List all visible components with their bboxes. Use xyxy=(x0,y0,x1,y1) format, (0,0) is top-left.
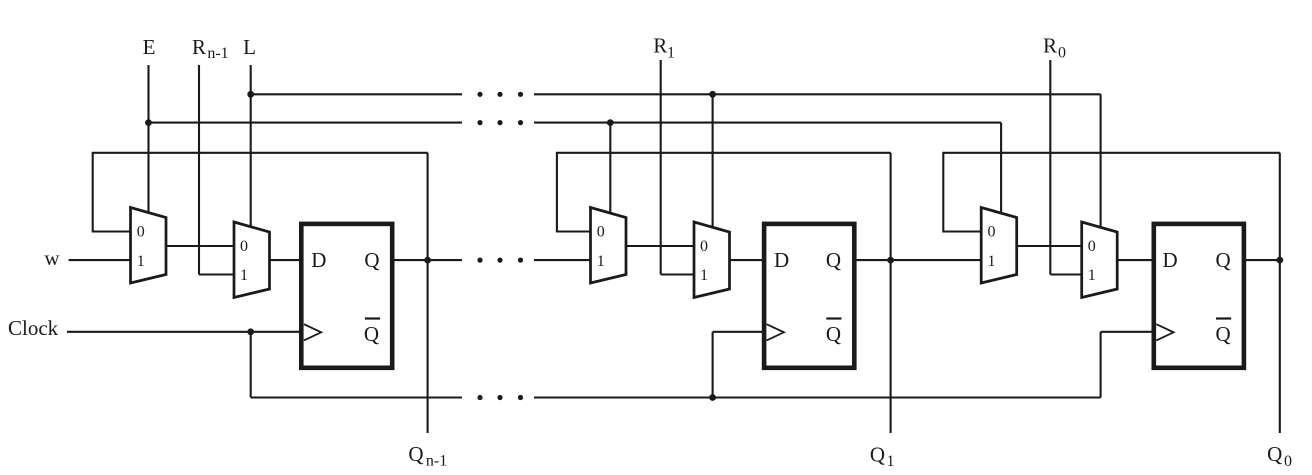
junction E bus stage1 xyxy=(145,119,152,126)
wire Rn-1 input rail xyxy=(198,65,200,275)
wire w input xyxy=(69,259,132,261)
svg-text:0: 0 xyxy=(240,238,248,255)
svg-text:L: L xyxy=(243,35,256,59)
flip-flop FF1 xyxy=(301,224,392,368)
wire feedback loop stage1 xyxy=(93,153,428,232)
wire feedback loop stage3 xyxy=(943,153,1280,232)
svg-text:E: E xyxy=(143,35,156,59)
junction node Qn-1 xyxy=(424,257,431,264)
wire Rn-1 jog to U2 input 1 xyxy=(199,273,236,275)
junction L bus stage1 xyxy=(247,91,254,98)
junction E bus stage2 xyxy=(607,119,614,126)
junction node Q0 xyxy=(1276,257,1283,264)
wire mux U1 output to U2 xyxy=(166,245,236,247)
svg-text:Q: Q xyxy=(1216,322,1231,346)
wire clock drop stage2 xyxy=(712,332,714,398)
wire R0 jog to U6 input 1 xyxy=(1050,273,1083,275)
svg-text:Q: Q xyxy=(826,322,841,346)
svg-text:Clock: Clock xyxy=(8,316,59,340)
mux U5 xyxy=(981,208,1017,284)
svg-text:D: D xyxy=(1163,248,1178,272)
flip-flop FF1 Q-bar overline xyxy=(365,317,380,319)
wire clock bus left segment xyxy=(251,396,462,398)
wire L select drop stage3 xyxy=(1100,94,1102,228)
svg-text:D: D xyxy=(774,248,789,272)
svg-text:R: R xyxy=(1043,34,1057,58)
wire Q0 output rail xyxy=(1279,153,1281,433)
svg-text:1: 1 xyxy=(1088,267,1096,284)
wire mux U5 output to U6 xyxy=(1016,245,1083,247)
svg-text:1: 1 xyxy=(597,253,605,270)
wire mux U4 output to FF2 D xyxy=(729,259,764,261)
continuation dots E bus xyxy=(477,120,482,125)
svg-text:0: 0 xyxy=(1088,238,1096,255)
svg-text:Q: Q xyxy=(364,248,379,272)
wire R1 input rail xyxy=(660,60,662,275)
svg-text:1: 1 xyxy=(700,267,708,284)
svg-text:n-1: n-1 xyxy=(207,45,228,62)
wire mux U3 output to U4 xyxy=(626,245,696,247)
wire clock bus right segment xyxy=(534,396,1101,398)
wire feedback loop stage2 xyxy=(557,153,891,232)
wire clock drop stage1 xyxy=(250,332,252,398)
wire Q1 output rail xyxy=(890,153,892,433)
flip-flop FF2 xyxy=(764,224,854,368)
svg-text:Q: Q xyxy=(1216,248,1231,272)
junction clock stage1 xyxy=(247,328,254,335)
wire Clock input xyxy=(67,331,305,333)
mux U2 xyxy=(234,222,270,298)
svg-text:0: 0 xyxy=(1058,45,1066,62)
svg-text:D: D xyxy=(311,248,326,272)
wire FF1 Q output xyxy=(394,259,462,261)
svg-text:0: 0 xyxy=(1284,453,1292,470)
svg-text:Q: Q xyxy=(870,443,885,467)
svg-text:R: R xyxy=(192,35,206,59)
svg-text:0: 0 xyxy=(988,223,996,240)
wire E select drop stage2 xyxy=(609,123,611,214)
wire E select drop stage3 xyxy=(1000,123,1002,214)
junction clock bus stage2 xyxy=(709,394,716,401)
svg-text:1: 1 xyxy=(667,44,675,61)
wire clock drop stage3 xyxy=(1100,332,1102,398)
mux U6 xyxy=(1082,222,1118,298)
wire FF3 Q output xyxy=(1246,259,1280,261)
flip-flop FF3 Q-bar overline xyxy=(1216,317,1231,319)
flip-flop FF3 xyxy=(1154,224,1244,368)
wire L input rail stage1 xyxy=(250,65,252,228)
svg-text:Q: Q xyxy=(408,442,423,466)
wire R1 jog to U4 input 1 xyxy=(661,273,696,275)
svg-text:0: 0 xyxy=(700,238,708,255)
wire Qn-1 output rail xyxy=(427,153,429,433)
wire L bus left segment xyxy=(251,93,462,95)
wire E input rail stage1 xyxy=(147,65,149,214)
svg-text:0: 0 xyxy=(597,223,605,240)
clock triangle FF2 xyxy=(767,324,784,340)
wire E bus left segment xyxy=(149,122,463,124)
mux U4 xyxy=(694,222,730,298)
clock triangle FF3 xyxy=(1156,324,1173,340)
wire L bus right segment xyxy=(534,93,1101,95)
wire clock stub stage2 xyxy=(713,331,767,333)
svg-text:1: 1 xyxy=(137,253,145,270)
continuation dots main row xyxy=(477,258,482,263)
clock triangle FF1 xyxy=(304,324,321,340)
junction L bus stage2 xyxy=(709,91,716,98)
svg-text:Q: Q xyxy=(364,322,379,346)
mux U1 xyxy=(131,208,167,284)
wire main row into mux U3 xyxy=(534,259,592,261)
continuation dots L bus xyxy=(477,92,482,97)
wire FF2 Q output to mux U5 xyxy=(856,259,983,261)
svg-text:n-1: n-1 xyxy=(426,453,447,470)
flip-flop FF2 Q-bar overline xyxy=(826,317,841,319)
svg-text:1: 1 xyxy=(240,267,248,284)
svg-text:0: 0 xyxy=(137,223,145,240)
wire R0 input rail xyxy=(1049,60,1051,275)
wire clock stub stage3 xyxy=(1101,331,1156,333)
svg-text:R: R xyxy=(653,34,667,58)
continuation dots clock bus xyxy=(477,395,482,400)
svg-text:1: 1 xyxy=(988,253,996,270)
wire E bus right segment xyxy=(534,122,1001,124)
mux U3 xyxy=(591,208,627,284)
svg-text:w: w xyxy=(44,246,60,270)
svg-text:Q: Q xyxy=(826,248,841,272)
junction node Q1 xyxy=(887,257,894,264)
wire L select drop stage2 xyxy=(712,94,714,228)
svg-text:1: 1 xyxy=(887,453,895,470)
wire mux U6 output to FF3 D xyxy=(1117,259,1153,261)
wire mux U2 output to FF1 D xyxy=(269,259,301,261)
svg-text:Q: Q xyxy=(1267,442,1282,466)
